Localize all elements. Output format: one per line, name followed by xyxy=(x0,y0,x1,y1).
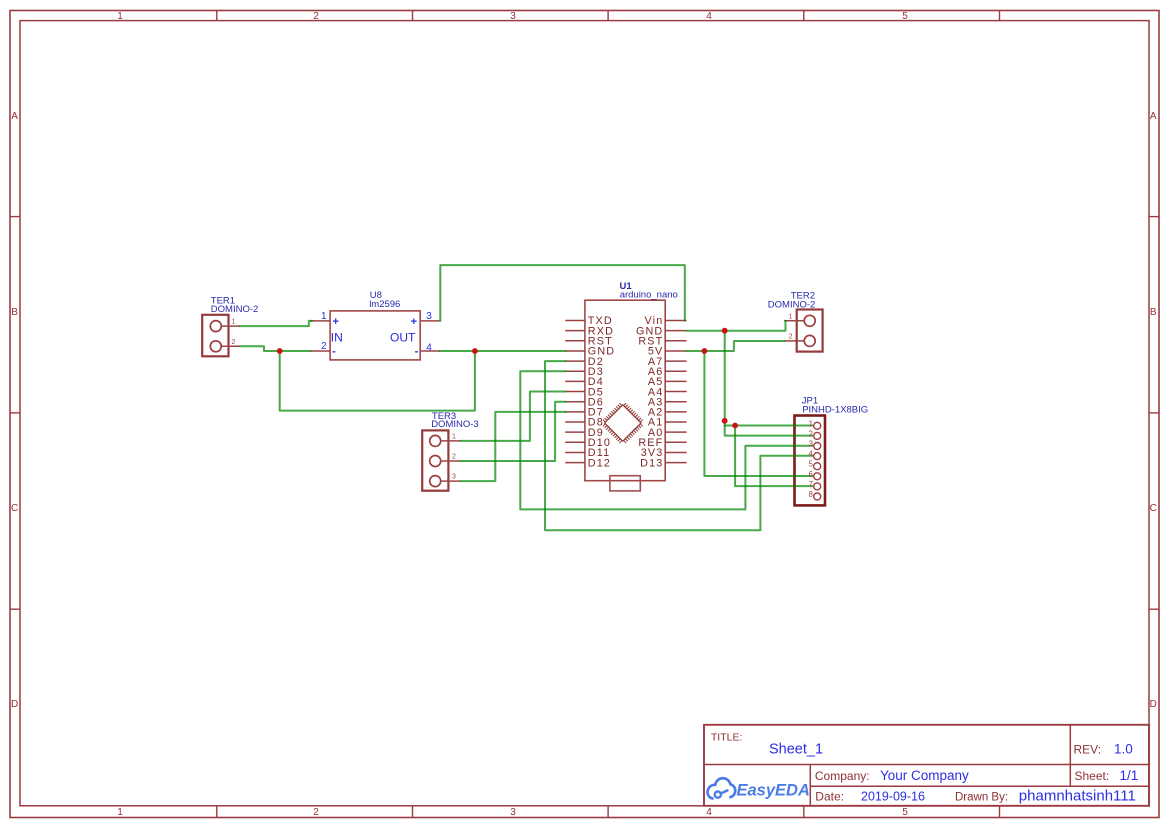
svg-text:1: 1 xyxy=(809,419,814,428)
svg-text:C: C xyxy=(11,503,18,514)
svg-text:1/1: 1/1 xyxy=(1120,768,1139,783)
TER3 pin 2 xyxy=(430,454,461,467)
svg-text:1: 1 xyxy=(117,11,123,22)
TER1 pin 1 xyxy=(210,319,240,332)
U8 pin 3 name + xyxy=(411,316,417,328)
U1 left pin D3 xyxy=(565,366,604,378)
U1 refdes label xyxy=(620,281,633,292)
svg-text:IN: IN xyxy=(331,330,343,344)
U8 pin 1 IN+ stub xyxy=(310,320,330,322)
wire TER1.2 to U8.IN- xyxy=(240,346,311,351)
svg-text:4: 4 xyxy=(706,11,712,22)
wire GND branch to JP1.7 xyxy=(735,426,813,487)
U1 right pin A1 xyxy=(648,417,687,429)
svg-text:3: 3 xyxy=(510,807,516,818)
junction dot 2 xyxy=(472,348,478,354)
svg-text:D12: D12 xyxy=(588,457,611,469)
svg-text:5: 5 xyxy=(809,460,814,469)
TER1 pin 2 xyxy=(210,339,240,352)
JP1 pin 4 xyxy=(809,450,821,460)
svg-text:4: 4 xyxy=(809,450,814,459)
svg-text:1: 1 xyxy=(452,434,456,441)
U8 pin 3 OUT+ stub xyxy=(420,320,440,322)
U1 left pin D4 xyxy=(565,376,604,388)
TER3 refdes label xyxy=(432,411,456,422)
wire TER1.1 to U8.IN+ xyxy=(240,321,312,326)
wire U1.D7 to TER3.3 xyxy=(461,412,566,481)
svg-text:4: 4 xyxy=(706,807,712,818)
TER3 pin 3 xyxy=(430,474,461,487)
U8 pin 4 number xyxy=(426,342,432,353)
U8 pin 1 name + xyxy=(332,316,338,328)
TER3 pin 1 xyxy=(430,434,461,447)
svg-text:DOMINO-2: DOMINO-2 xyxy=(768,299,816,310)
svg-text:2: 2 xyxy=(452,454,456,461)
TER3 value label DOMINO-3 xyxy=(431,419,479,430)
svg-text:2: 2 xyxy=(321,341,327,352)
U1 right pin A0 xyxy=(648,427,687,439)
U8 pin 2 number xyxy=(321,341,327,352)
svg-text:lm2596: lm2596 xyxy=(369,299,400,310)
svg-text:-: - xyxy=(332,346,336,358)
svg-text:A: A xyxy=(11,111,18,122)
U1 right pin RST xyxy=(638,336,686,348)
U8 label IN xyxy=(331,330,343,344)
svg-text:OUT: OUT xyxy=(390,330,416,344)
U1 chip diamond glyph xyxy=(603,403,643,443)
svg-text:1: 1 xyxy=(117,807,123,818)
U8 pin 4 name - xyxy=(415,346,419,358)
svg-text:D: D xyxy=(1150,699,1157,710)
U8 pin 4 OUT- stub xyxy=(420,350,440,352)
svg-text:1: 1 xyxy=(321,311,327,322)
TER2 value label DOMINO-2 xyxy=(768,299,816,310)
U1 right pin GND xyxy=(636,325,687,337)
U1 left pin D7 xyxy=(565,407,604,419)
svg-text:-: - xyxy=(415,346,419,358)
svg-text:Sheet:: Sheet: xyxy=(1075,769,1110,783)
U8 pin 1 number xyxy=(321,311,327,322)
junction dot 4 xyxy=(722,328,728,334)
svg-text:D13: D13 xyxy=(640,457,663,469)
JP1 pin 1 xyxy=(809,419,821,429)
svg-text:B: B xyxy=(11,307,18,318)
svg-text:phamnhatsinh111: phamnhatsinh111 xyxy=(1019,788,1136,805)
U1 usb tab xyxy=(610,476,640,491)
U1 right pin A6 xyxy=(648,366,687,378)
svg-text:2: 2 xyxy=(809,429,814,438)
svg-text:arduino_nano: arduino_nano xyxy=(620,290,678,301)
JP1 pin 8 xyxy=(809,490,821,500)
U1 right pin A5 xyxy=(648,376,687,388)
U8 pin 3 number xyxy=(426,311,432,322)
wire 5V branch to JP1.6 xyxy=(704,351,812,476)
JP1 pin 6 xyxy=(809,470,821,480)
U1 right pin A2 xyxy=(648,407,687,419)
U1 right pin A4 xyxy=(648,386,687,398)
U1 right pin 3V3 xyxy=(641,447,687,459)
svg-text:7: 7 xyxy=(809,480,814,489)
buck converter U8 xyxy=(330,311,420,360)
svg-text:DOMINO-2: DOMINO-2 xyxy=(211,304,258,315)
junction dot 3 xyxy=(702,348,708,354)
wire GND return loop under U8 xyxy=(280,351,475,411)
svg-text:2: 2 xyxy=(232,339,236,346)
svg-text:Your Company: Your Company xyxy=(880,768,969,783)
wire U1.D3 to JP1.3 xyxy=(520,371,812,509)
svg-text:DOMINO-3: DOMINO-3 xyxy=(431,419,479,430)
svg-text:5: 5 xyxy=(902,11,908,22)
connector TER2 body xyxy=(797,310,823,352)
EasyEDA logo xyxy=(708,778,810,799)
U1 left pin D12 xyxy=(565,457,611,469)
U1 right pin A3 xyxy=(648,396,687,408)
title block xyxy=(704,725,1149,806)
svg-text:5: 5 xyxy=(902,807,908,818)
wire U1.D5 to TER3.1 xyxy=(461,392,566,441)
JP1 pin 7 xyxy=(809,480,821,490)
wire U1.D2 to JP1.4 xyxy=(545,361,813,530)
svg-text:1.0: 1.0 xyxy=(1114,741,1133,756)
svg-text:2019-09-16: 2019-09-16 xyxy=(861,790,925,804)
JP1 pin 5 xyxy=(809,460,821,470)
svg-text:8: 8 xyxy=(809,490,814,499)
svg-text:4: 4 xyxy=(426,342,432,353)
wire GND branch to JP1.1 xyxy=(725,425,813,427)
wire GND branch to JP1.2 xyxy=(725,331,813,436)
svg-text:C: C xyxy=(1150,503,1157,514)
svg-text:1: 1 xyxy=(789,313,793,320)
JP1 pin 3 xyxy=(809,440,821,450)
wire U1.GND to TER2.1 xyxy=(686,321,785,331)
JP1 refdes label xyxy=(802,395,818,406)
U8 label OUT xyxy=(390,330,416,344)
svg-text:PINHD-1X8BIG: PINHD-1X8BIG xyxy=(802,405,868,416)
header JP1 body xyxy=(795,416,826,506)
svg-text:2: 2 xyxy=(313,11,319,22)
TER1 refdes label xyxy=(211,295,235,306)
JP1 pin 2 xyxy=(809,429,821,439)
wire U1.5V to TER2.2 xyxy=(686,341,785,351)
junction dot 1 xyxy=(277,348,283,354)
svg-text:REV:: REV: xyxy=(1074,743,1102,757)
svg-text:+: + xyxy=(332,316,338,328)
U1 left pin D9 xyxy=(565,427,604,439)
svg-text:EasyEDA: EasyEDA xyxy=(737,782,810,800)
connector TER1 body xyxy=(202,315,228,357)
svg-text:B: B xyxy=(1150,307,1157,318)
U8 refdes label U8 xyxy=(370,290,382,301)
U1 left pin D8 xyxy=(565,417,604,429)
svg-text:6: 6 xyxy=(809,470,814,479)
svg-text:Date:: Date: xyxy=(815,790,844,804)
svg-text:Company:: Company: xyxy=(815,769,870,783)
U8 pin 2 name - xyxy=(332,346,336,358)
svg-text:+: + xyxy=(411,316,417,328)
U8 pin 2 IN- stub xyxy=(310,350,330,352)
U1 left pin RST xyxy=(565,336,613,348)
connector TER3 body xyxy=(422,430,448,490)
U1 right pin A7 xyxy=(648,356,687,368)
TER1 value label DOMINO-2 xyxy=(211,304,258,315)
svg-text:2: 2 xyxy=(313,807,319,818)
U1 right pin 5V xyxy=(648,346,687,358)
svg-text:Sheet_1: Sheet_1 xyxy=(769,742,823,758)
U1 right pin REF xyxy=(638,437,686,449)
svg-text:TITLE:: TITLE: xyxy=(711,732,743,744)
U8 value label lm2596 xyxy=(369,299,400,310)
U1 left pin D11 xyxy=(565,447,610,459)
svg-text:1: 1 xyxy=(232,319,236,326)
svg-text:3: 3 xyxy=(426,311,432,322)
U1 right pin D13 xyxy=(640,457,686,469)
svg-text:3: 3 xyxy=(809,440,814,449)
svg-text:3: 3 xyxy=(510,11,516,22)
U1 left pin RXD xyxy=(565,325,614,337)
wire U8.OUT- to U1.GND xyxy=(440,350,566,352)
junction dot 6 xyxy=(732,423,738,429)
svg-text:Drawn By:: Drawn By: xyxy=(955,792,1008,804)
U1 left pin D6 xyxy=(565,396,604,408)
U1 right pin Vin xyxy=(645,315,687,327)
junction dot 5 xyxy=(722,418,728,424)
wire U1.D6 to TER3.2 xyxy=(461,402,566,461)
svg-text:D: D xyxy=(11,699,18,710)
TER2 pin 1 xyxy=(785,313,816,326)
U1 left pin GND xyxy=(565,346,615,358)
wire U8.OUT+ to U1.Vin xyxy=(440,265,685,321)
U1 left pin D10 xyxy=(565,437,611,449)
svg-text:A: A xyxy=(1150,111,1157,122)
svg-text:2: 2 xyxy=(789,334,793,341)
JP1 value label PINHD-1X8BIG xyxy=(802,405,868,416)
TER2 refdes label xyxy=(791,291,815,302)
svg-text:3: 3 xyxy=(452,474,456,481)
U1 value label arduino_nano xyxy=(620,290,678,301)
mcu module U1 body xyxy=(585,300,665,481)
TER2 pin 2 xyxy=(785,334,816,347)
U1 left pin TXD xyxy=(565,315,613,327)
U1 left pin D5 xyxy=(565,386,604,398)
U1 left pin D2 xyxy=(565,356,604,368)
